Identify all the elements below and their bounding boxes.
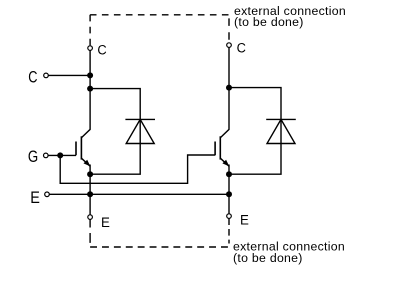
svg-text:C: C [237,40,247,56]
svg-text:C: C [28,68,37,87]
svg-text:E: E [101,215,110,230]
svg-text:E: E [30,189,40,207]
svg-text:(to be done): (to be done) [233,251,303,265]
svg-text:E: E [240,212,249,227]
svg-text:C: C [97,42,107,58]
svg-text:G: G [28,148,38,167]
svg-text:(to be done): (to be done) [234,15,304,29]
